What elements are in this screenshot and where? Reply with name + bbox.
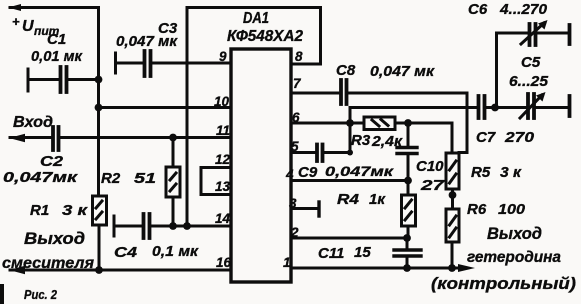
node R6-rail junction: [448, 264, 456, 272]
arrow C6 trimmer head: [538, 20, 548, 30]
capacitor C1: [28, 67, 99, 92]
svg-text:0,047мк: 0,047мк: [325, 163, 394, 179]
svg-text:C2: C2: [40, 153, 64, 170]
label C4 0,1 mk: [114, 243, 199, 261]
wire pin6 node up to oscillator line: [349, 108, 352, 124]
svg-text:4: 4: [285, 167, 294, 182]
wire Vhod input (pin 11): [10, 136, 231, 139]
svg-text:15: 15: [354, 244, 371, 261]
wire pin4: [291, 179, 408, 182]
pin 3 label: [289, 196, 297, 211]
label C6: [468, 1, 488, 18]
node R2 top junction: [169, 134, 177, 142]
svg-text:6...25: 6...25: [509, 73, 549, 90]
terminal C5 right: [568, 96, 572, 116]
label R3 2,4k: [351, 132, 403, 150]
svg-text:R2: R2: [101, 170, 121, 187]
svg-text:0,047 мк: 0,047 мк: [370, 63, 435, 80]
capacitor C9: [317, 145, 323, 162]
svg-text:2,4к: 2,4к: [371, 133, 404, 150]
svg-text:Выход: Выход: [487, 225, 542, 243]
resistor R4: [402, 181, 416, 239]
arrow mixer output (left): [9, 266, 25, 274]
value C5 6...25: [509, 73, 549, 90]
label C10 27: [416, 158, 445, 194]
svg-text:11: 11: [216, 123, 230, 138]
wire pin3 stub with terminal: [291, 202, 319, 216]
label C2: [40, 153, 64, 170]
wire right frame (pin8 loop right side): [319, 8, 322, 65]
wire pin7 with corner down to R5: [291, 93, 467, 153]
svg-text:2: 2: [290, 225, 299, 240]
wire left frame (pin8 loop left side): [186, 8, 189, 227]
wire C6 branch: [497, 33, 529, 108]
svg-text:4...270: 4...270: [499, 1, 548, 18]
svg-text:КФ548ХА2: КФ548ХА2: [227, 28, 303, 45]
svg-text:8: 8: [295, 49, 303, 64]
label KF548XA2: [227, 28, 303, 45]
svg-text:27: 27: [420, 177, 445, 194]
capacitor C2: [53, 127, 59, 150]
pin 12 label: [215, 152, 231, 167]
label R1 3 k: [30, 202, 89, 219]
capacitor C7: [479, 96, 485, 118]
node R2 bottom junction: [169, 222, 177, 230]
scan edge mark bottom left: [0, 284, 4, 304]
pin 5 label: [291, 139, 299, 154]
svg-text:14: 14: [215, 211, 231, 226]
svg-text:3 к: 3 к: [500, 164, 522, 181]
svg-text:C9: C9: [298, 164, 318, 181]
label +Upit: [12, 14, 60, 38]
svg-text:C10: C10: [416, 158, 444, 175]
svg-text:DA1: DA1: [243, 10, 269, 27]
svg-text:Рис. 2: Рис. 2: [24, 288, 57, 302]
svg-text:C5: C5: [521, 54, 541, 71]
label Vhod: [13, 114, 53, 131]
arrow +Upit (left): [8, 4, 21, 11]
pin 10 label: [214, 94, 230, 109]
resistor R1: [93, 196, 107, 225]
label C3: [158, 20, 178, 37]
node R1-output junction: [95, 266, 103, 274]
capacitor C10: [397, 123, 417, 181]
label C1: [47, 31, 66, 48]
capacitor C4: [114, 214, 150, 238]
wire pin6: [291, 122, 350, 125]
label C8 0,047 mk: [336, 62, 435, 80]
svg-text:C6: C6: [468, 1, 488, 18]
node R5-R6 junction: [449, 191, 457, 199]
pin 7 label: [293, 76, 302, 91]
svg-text:R5: R5: [471, 164, 491, 181]
pin 4 label: [285, 167, 294, 182]
wire pin6 node down to C9: [349, 123, 352, 153]
arrow Vhod (left): [9, 134, 25, 142]
label C11 15: [318, 244, 371, 262]
svg-text:U: U: [22, 18, 34, 35]
wire top frame: [187, 6, 321, 9]
resistor R5: [446, 153, 459, 209]
svg-text:3: 3: [289, 196, 297, 211]
node pin6 junction: [346, 119, 354, 127]
wire pin10: [99, 106, 232, 109]
wire pin9: [152, 62, 231, 65]
label C9 0,047mk: [298, 163, 394, 181]
capacitor C11: [394, 238, 421, 268]
capacitor C3: [116, 51, 151, 76]
node C1-rail junction: [95, 76, 103, 84]
op-amp IC DA1 body: [231, 49, 291, 282]
wire pin8: [291, 63, 321, 66]
terminal C6 right: [568, 25, 572, 44]
pin 6 label: [292, 110, 300, 125]
wire mixer output (pin 16): [10, 269, 231, 272]
capacitor C8: [341, 80, 347, 104]
label R5 3 k: [471, 164, 522, 181]
label mixer output line1: [24, 230, 85, 248]
label DA1: [243, 10, 269, 27]
node pin10-rail junction: [95, 104, 103, 112]
wire pin12-13 bracket: [201, 168, 231, 195]
svg-text:C1: C1: [47, 31, 66, 48]
svg-text:16: 16: [216, 255, 232, 270]
resistor R3: [350, 117, 452, 130]
svg-text:10: 10: [214, 94, 230, 109]
svg-text:Выход: Выход: [24, 230, 85, 248]
node frame-pin14 junction: [183, 222, 191, 230]
svg-text:(контрольный): (контрольный): [431, 275, 577, 293]
svg-text:12: 12: [215, 152, 231, 167]
resistor R6: [446, 209, 459, 268]
wire pin2: [291, 237, 407, 240]
label mixer output line2: [2, 255, 95, 272]
svg-text:C11: C11: [318, 245, 344, 262]
svg-text:C7: C7: [476, 129, 496, 146]
wire +Upit supply top rail: [10, 8, 99, 197]
value C2 0,047mk: [3, 169, 79, 186]
svg-text:0,047 мк: 0,047 мк: [116, 33, 178, 50]
svg-text:R6: R6: [467, 201, 487, 218]
svg-text:6: 6: [292, 110, 300, 125]
svg-text:C8: C8: [336, 62, 356, 79]
svg-text:0,1 мк: 0,1 мк: [152, 243, 199, 260]
pin 11 label: [216, 123, 230, 138]
label heterodyne output line2: [467, 249, 561, 266]
svg-text:9: 9: [219, 49, 227, 64]
svg-text:5: 5: [291, 139, 299, 154]
pin 8 label: [295, 49, 303, 64]
svg-text:3 к: 3 к: [62, 202, 89, 219]
label heterodyne output line1: [487, 225, 542, 243]
node R3 right junction: [404, 119, 412, 127]
svg-text:C4: C4: [114, 244, 138, 261]
svg-text:смесителя: смесителя: [2, 255, 95, 272]
pin 13 label: [215, 179, 231, 194]
pin 14 label: [215, 211, 231, 226]
svg-text:0,047мк: 0,047мк: [3, 169, 79, 186]
caption Ris. 2: [24, 288, 57, 302]
resistor R2: [166, 138, 180, 227]
label C7 270: [476, 129, 535, 146]
pin 9 label: [219, 49, 227, 64]
pin 2 label: [290, 225, 299, 240]
svg-text:1к: 1к: [369, 191, 386, 208]
wire pin1 output rail: [291, 267, 460, 270]
pin 16 label: [216, 255, 232, 270]
node C9-right junction: [347, 150, 353, 156]
value C1 0,01 mk: [31, 48, 83, 65]
pin 1 label: [283, 255, 291, 270]
wire oscillator tank line: [350, 106, 568, 109]
svg-text:R4: R4: [337, 191, 360, 208]
arrow heterodyne output (right): [458, 264, 475, 272]
capacitor C5 (trimmer): [520, 94, 542, 118]
svg-text:Вход: Вход: [13, 114, 53, 131]
wire R3 node to R5: [451, 123, 454, 153]
svg-text:R1: R1: [30, 202, 49, 219]
label R4 1k: [337, 191, 386, 208]
svg-text:1: 1: [283, 255, 291, 270]
label R6 100: [467, 201, 526, 218]
svg-text:гетеродина: гетеродина: [467, 249, 561, 266]
node pin4-C10-R4 junction: [404, 177, 412, 185]
wire R1 bottom: [98, 225, 101, 270]
svg-text:0,01 мк: 0,01 мк: [31, 48, 83, 65]
label C5: [521, 54, 541, 71]
svg-text:R3: R3: [351, 132, 371, 149]
label R2 51: [101, 170, 156, 187]
label heterodyne output line3: [431, 275, 577, 293]
wire pin5: [291, 151, 350, 154]
svg-text:100: 100: [498, 201, 526, 218]
svg-text:+: +: [12, 14, 20, 29]
capacitor C6 (trimmer): [521, 23, 568, 45]
wire pin14: [151, 225, 231, 228]
node C7-C6 branch junction: [491, 104, 499, 112]
svg-text:270: 270: [504, 129, 535, 146]
value C3 0,047 mk: [116, 33, 178, 50]
node pin2-R4 junction: [403, 234, 411, 242]
arrow C5 trimmer head: [536, 92, 546, 102]
value C6 4...270: [499, 1, 548, 18]
svg-text:13: 13: [215, 179, 231, 194]
node C11-rail junction: [403, 264, 411, 272]
svg-text:51: 51: [134, 170, 156, 187]
